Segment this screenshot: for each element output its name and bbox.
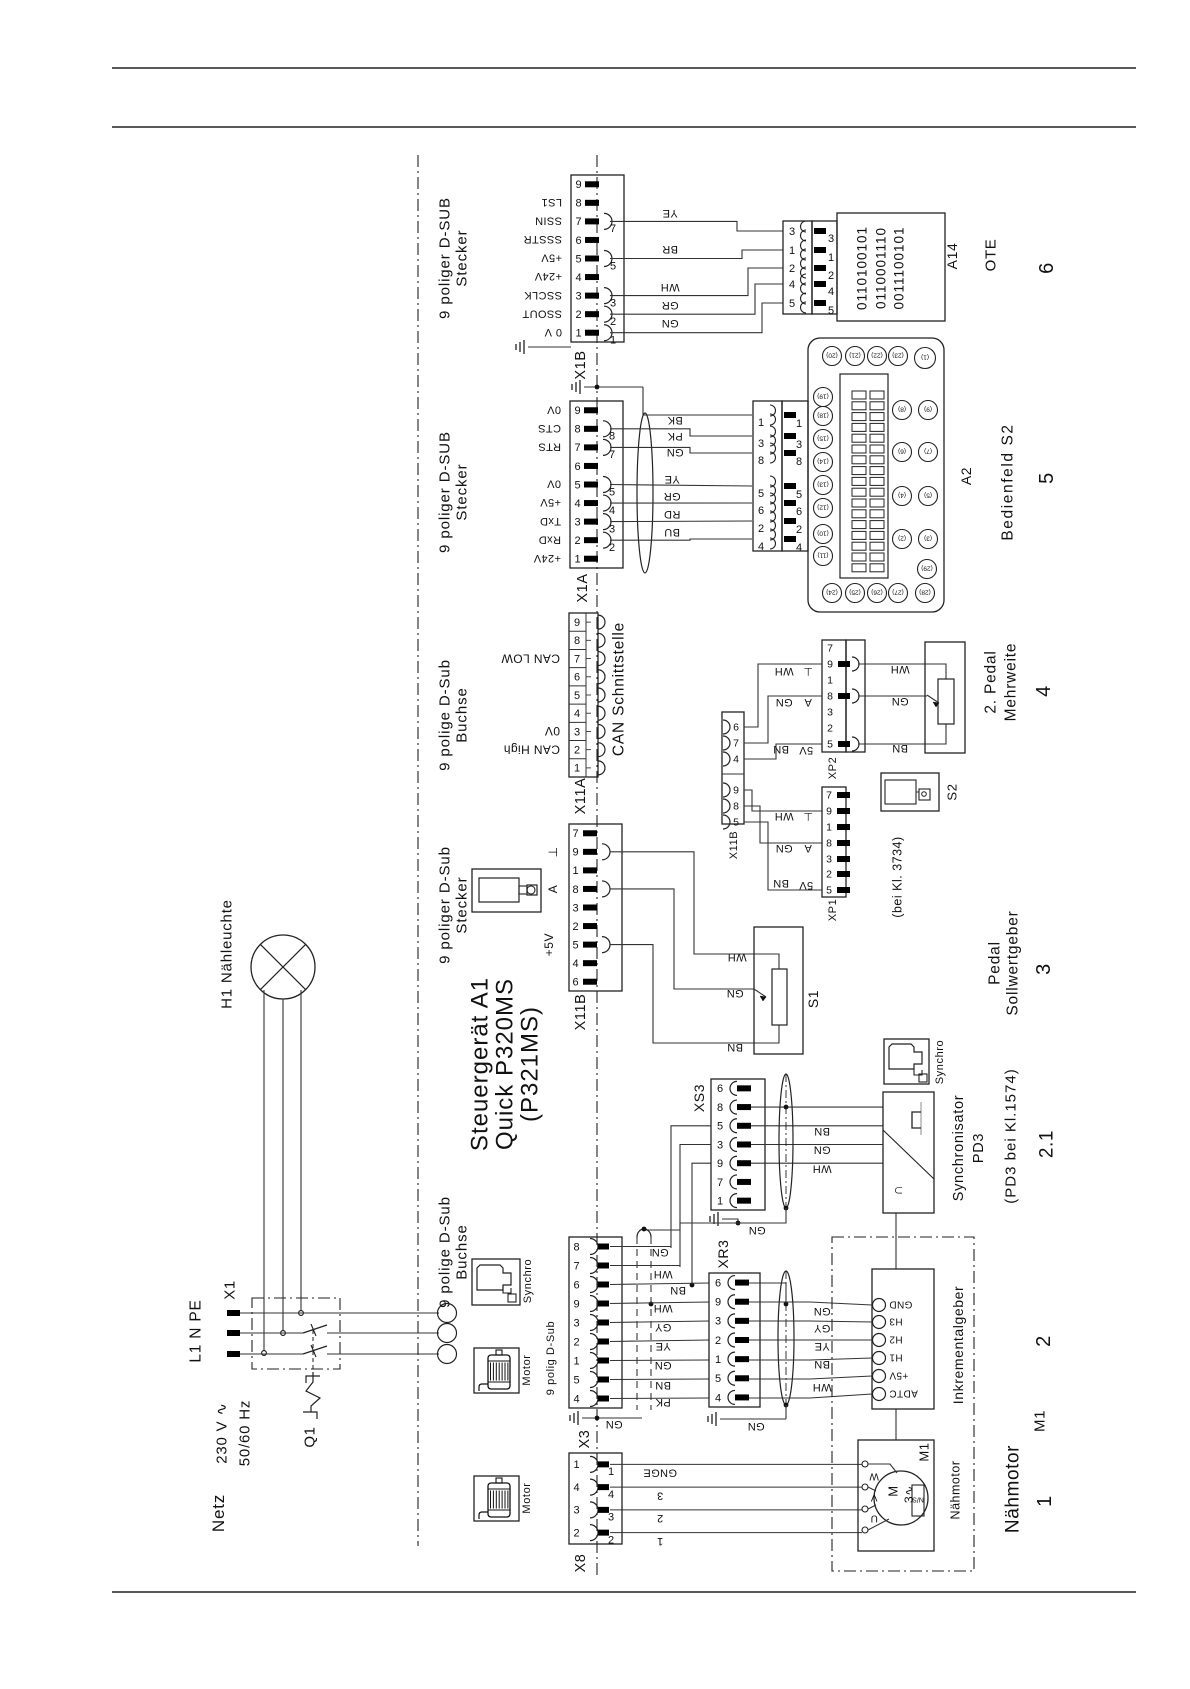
svg-text:8: 8 [572,884,578,896]
svg-text:1: 1 [796,418,802,430]
svg-text:5: 5 [827,739,833,751]
svg-text:3: 3 [827,707,833,719]
svg-text:9: 9 [574,405,580,417]
svg-text:6: 6 [574,461,580,473]
svg-text:2: 2 [573,1527,579,1539]
svg-text:4: 4 [796,542,802,554]
svg-text:7: 7 [572,828,578,840]
svg-text:4: 4 [573,1393,579,1405]
svg-text:6: 6 [1036,262,1058,274]
svg-text:3: 3 [715,1316,721,1328]
svg-text:4: 4 [828,286,834,298]
svg-text:5: 5 [609,486,615,498]
svg-text:TxD: TxD [540,515,561,527]
svg-text:+24V: +24V [534,270,562,282]
svg-text:1: 1 [1034,1495,1056,1507]
svg-text:(22): (22) [871,352,883,359]
svg-text:2: 2 [657,1512,664,1524]
svg-text:(14): (14) [817,458,829,465]
svg-text:Bedienfeld S2: Bedienfeld S2 [999,423,1016,540]
svg-text:(29): (29) [921,565,933,572]
svg-text:X3: X3 [577,1430,593,1449]
svg-text:9: 9 [575,179,581,191]
svg-text:M: M [886,1485,901,1496]
svg-text:7: 7 [610,223,616,235]
svg-text:Q1: Q1 [301,1426,318,1447]
svg-text:6: 6 [796,506,802,518]
svg-text:X11A: X11A [573,778,589,815]
svg-text:BN: BN [892,742,908,754]
svg-text:9: 9 [715,1297,721,1309]
svg-text:S1: S1 [805,990,821,1008]
svg-text:(19): (19) [817,393,829,400]
svg-text:(23): (23) [892,352,904,359]
svg-text:5: 5 [1036,472,1058,484]
svg-text:(3): (3) [924,535,932,542]
svg-text:YE: YE [664,473,679,485]
svg-text:8: 8 [796,456,802,468]
svg-text:GNGE: GNGE [643,1467,677,1479]
svg-text:WH: WH [812,1162,831,1174]
svg-text:(21): (21) [849,352,861,359]
svg-text:S2: S2 [945,783,960,800]
svg-text:GN: GN [775,696,792,708]
svg-text:1: 1 [657,1535,664,1547]
svg-text:YE: YE [655,1340,670,1352]
svg-text:(1): (1) [921,354,929,361]
svg-text:2.1: 2.1 [1037,1130,1058,1158]
svg-text:6: 6 [572,977,578,989]
svg-text:3: 3 [796,439,802,451]
svg-text:3: 3 [789,226,795,238]
svg-text:GN: GN [813,1144,830,1156]
svg-text:1: 1 [572,865,578,877]
svg-text:GN: GN [726,987,743,999]
svg-text:3: 3 [574,726,580,738]
svg-text:5: 5 [574,690,580,702]
svg-text:2: 2 [827,723,833,735]
svg-text:2: 2 [715,1335,721,1347]
svg-text:PD3: PD3 [971,1133,987,1163]
svg-text:OTE: OTE [982,239,999,272]
svg-text:RTS: RTS [538,441,561,453]
svg-text:XS3: XS3 [691,1084,707,1112]
svg-text:2: 2 [609,542,615,554]
svg-text:50/60 Hz: 50/60 Hz [236,1400,253,1466]
svg-text:WH: WH [660,281,679,293]
svg-text:CAN High: CAN High [503,742,560,756]
svg-text:3: 3 [657,1489,664,1501]
svg-text:230 V ∿: 230 V ∿ [213,1402,230,1464]
svg-text:3: 3 [573,1505,579,1517]
svg-text:8: 8 [574,635,580,647]
svg-text:Mehrweite: Mehrweite [1002,643,1019,722]
svg-text:0V: 0V [545,724,560,738]
svg-text:BN: BN [773,743,789,755]
svg-text:(18): (18) [817,412,829,419]
svg-text:Stecker: Stecker [453,876,470,933]
svg-text:2: 2 [610,316,616,328]
svg-text:Nähmotor: Nähmotor [948,1461,962,1520]
svg-text:8: 8 [758,455,764,467]
svg-text:Synchronisator: Synchronisator [951,1095,967,1202]
svg-text:A: A [804,696,812,708]
svg-text:3: 3 [572,902,578,914]
svg-text:0110001110: 0110001110 [874,227,889,309]
svg-text:A2: A2 [958,467,974,485]
svg-text:2: 2 [796,524,802,536]
svg-text:6: 6 [575,235,581,247]
svg-text:8: 8 [826,838,832,850]
svg-text:8: 8 [827,691,833,703]
svg-text:(8): (8) [898,406,906,413]
svg-text:ADTC: ADTC [889,1388,918,1399]
svg-text:(10): (10) [817,530,829,537]
svg-text:7: 7 [574,653,580,665]
svg-text:6: 6 [758,505,764,517]
svg-text:4: 4 [609,505,615,517]
svg-text:BN: BN [727,1041,743,1053]
svg-text:(P321MS): (P321MS) [516,1006,543,1122]
svg-text:GR: GR [661,299,678,311]
svg-text:5: 5 [796,489,802,501]
svg-text:7: 7 [574,442,580,454]
svg-text:X11B: X11B [728,831,740,860]
svg-text:5: 5 [826,885,832,897]
svg-text:1: 1 [610,335,616,347]
svg-text:5: 5 [574,479,580,491]
svg-text:YE: YE [814,1340,829,1352]
svg-text:BN: BN [655,1379,671,1391]
svg-text:1: 1 [827,675,833,687]
svg-text:2: 2 [1033,1335,1055,1347]
svg-text:5: 5 [572,939,578,951]
svg-text:1: 1 [789,245,795,257]
svg-text:GN: GN [813,1305,830,1317]
svg-text:1: 1 [573,1459,579,1471]
svg-text:2: 2 [828,270,834,282]
svg-text:7: 7 [717,1177,723,1189]
svg-text:CTS: CTS [538,422,561,434]
svg-text:GN: GN [666,446,683,458]
svg-text:7: 7 [573,1260,579,1272]
svg-text:3: 3 [826,854,832,866]
svg-text:GY: GY [654,1321,671,1333]
svg-text:(4): (4) [898,492,906,499]
svg-text:Stecker: Stecker [453,463,470,520]
svg-text:(7): (7) [924,448,932,455]
svg-text:4: 4 [733,754,739,766]
svg-text:Buchse: Buchse [453,687,470,742]
svg-text:2: 2 [574,745,580,757]
svg-text:YE: YE [662,207,677,219]
svg-text:9: 9 [826,806,832,818]
svg-text:Motor: Motor [521,1354,533,1385]
svg-text:5: 5 [828,305,834,317]
svg-text:W: W [869,1471,879,1482]
svg-text:WH: WH [653,1268,672,1280]
svg-text:2: 2 [789,263,795,275]
svg-text:+5V: +5V [889,1370,908,1381]
svg-text:1: 1 [573,1355,579,1367]
svg-text:9 poliger D-SUB: 9 poliger D-SUB [436,431,453,553]
svg-text:9: 9 [733,785,739,797]
svg-text:Inkrementalgeber: Inkrementalgeber [950,1286,966,1405]
svg-text:Buchse: Buchse [453,1224,470,1279]
svg-text:M1: M1 [1031,1410,1048,1432]
svg-text:9 polige D-Sub: 9 polige D-Sub [436,659,453,771]
svg-text:8: 8 [573,1241,579,1253]
svg-text:(6): (6) [898,448,906,455]
svg-text:GN: GN [775,842,792,854]
svg-text:(27): (27) [892,589,904,596]
svg-text:3: 3 [574,516,580,528]
svg-text:Netz: Netz [209,1494,228,1532]
svg-text:8: 8 [574,424,580,436]
svg-text:6: 6 [574,672,580,684]
svg-text:∩: ∩ [889,1185,905,1196]
svg-text:WH: WH [774,810,793,822]
svg-text:1: 1 [717,1195,723,1207]
svg-text:9: 9 [572,847,578,859]
svg-text:(13): (13) [817,481,829,488]
svg-text:⊥: ⊥ [803,665,813,677]
svg-text:WH: WH [727,951,746,963]
svg-text:WH: WH [774,665,793,677]
svg-text:(15): (15) [817,435,829,442]
svg-text:2: 2 [573,1336,579,1348]
svg-text:A14: A14 [944,243,960,270]
svg-text:9 polige D-Sub: 9 polige D-Sub [436,1196,453,1308]
svg-text:Quick P320MS: Quick P320MS [491,978,518,1150]
svg-text:SSCLK: SSCLK [524,289,562,301]
svg-text:1: 1 [608,1466,614,1478]
svg-text:XP1: XP1 [827,899,839,922]
svg-text:GY: GY [813,1322,830,1334]
svg-text:BK: BK [667,414,683,426]
svg-text:2: 2 [758,523,764,535]
svg-text:+24V: +24V [533,552,561,564]
svg-text:7: 7 [826,790,832,802]
svg-text:3: 3 [608,1512,614,1524]
svg-text:PK: PK [655,1396,671,1408]
svg-text:GR: GR [663,490,680,502]
svg-text:1: 1 [574,554,580,566]
svg-text:(20): (20) [826,352,838,359]
svg-text:6: 6 [715,1277,721,1289]
svg-text:(bei Kl. 3734): (bei Kl. 3734) [890,836,904,917]
svg-text:BN: BN [814,1125,830,1137]
svg-text:4: 4 [715,1392,721,1404]
svg-text:6: 6 [733,722,739,734]
svg-text:XR3: XR3 [715,1239,731,1268]
svg-text:(12): (12) [817,504,829,511]
svg-text:2: 2 [826,869,832,881]
svg-text:H2: H2 [889,1334,903,1345]
svg-text:+5V: +5V [541,252,562,264]
svg-text:9: 9 [717,1158,723,1170]
svg-text:XP2: XP2 [827,757,839,780]
svg-text:6: 6 [573,1279,579,1291]
svg-text:SSSTR: SSSTR [523,233,562,245]
svg-text:(24): (24) [826,589,838,596]
svg-text:BR: BR [662,243,678,255]
svg-text:3: 3 [828,233,834,245]
svg-text:9: 9 [573,1298,579,1310]
svg-text:CAN Schnittstelle: CAN Schnittstelle [610,622,627,756]
svg-text:5: 5 [575,253,581,265]
svg-text:WH: WH [812,1381,831,1393]
svg-text:5: 5 [715,1373,721,1385]
svg-text:H3: H3 [889,1316,903,1327]
svg-text:4: 4 [1033,685,1055,697]
svg-text:Pedal: Pedal [986,941,1003,985]
svg-text:A: A [546,885,560,894]
svg-text:GN: GN [661,317,678,329]
svg-text:Steuergerät A1: Steuergerät A1 [466,977,493,1151]
svg-text:RxD: RxD [538,533,561,545]
svg-text:2: 2 [572,921,578,933]
svg-text:BN: BN [814,1358,830,1370]
svg-text:PK: PK [667,430,683,442]
svg-text:3: 3 [609,523,615,535]
svg-text:9 poliger D-Sub: 9 poliger D-Sub [436,846,453,964]
svg-text:H1 Nähleuchte: H1 Nähleuchte [218,899,235,1009]
svg-text:X11B: X11B [573,994,589,1031]
svg-text:8: 8 [575,198,581,210]
svg-text:Stecker: Stecker [453,229,470,286]
svg-text:3: 3 [758,438,764,450]
svg-text:5: 5 [733,817,739,829]
svg-text:4: 4 [758,541,764,553]
svg-text:GN: GN [748,1224,765,1236]
svg-text:BN: BN [773,877,789,889]
svg-text:Synchro: Synchro [934,1040,946,1085]
svg-text:1: 1 [715,1354,721,1366]
svg-text:5: 5 [717,1121,723,1133]
svg-text:3: 3 [610,297,616,309]
svg-text:4: 4 [789,279,795,291]
svg-text:LS1: LS1 [541,196,562,208]
svg-text:4: 4 [608,1489,614,1501]
svg-text:2: 2 [574,535,580,547]
svg-text:8: 8 [609,431,615,443]
svg-text:L1 N PE: L1 N PE [187,1299,204,1362]
svg-text:(25): (25) [849,589,861,596]
svg-text:WH: WH [890,663,909,675]
svg-text:(28): (28) [919,589,931,596]
svg-text:0110100101: 0110100101 [855,226,870,310]
svg-text:5: 5 [610,260,616,272]
svg-text:4: 4 [575,272,581,284]
svg-text:GN: GN [747,1420,764,1432]
svg-text:(5): (5) [924,492,932,499]
svg-text:1: 1 [574,763,580,775]
svg-text:X1B: X1B [573,350,589,379]
svg-text:Motor: Motor [521,1482,533,1513]
svg-text:1: 1 [758,417,764,429]
svg-text:BU: BU [664,526,680,538]
svg-text:GN: GN [654,1359,671,1371]
svg-text:7: 7 [609,449,615,461]
svg-text:0V: 0V [546,403,561,415]
svg-text:SSOUT: SSOUT [522,307,562,319]
svg-text:Nähmotor: Nähmotor [1003,1445,1024,1533]
svg-text:(PD3 bei Kl.1574): (PD3 bei Kl.1574) [1002,1068,1019,1203]
svg-text:+5V: +5V [542,933,556,957]
svg-text:GN: GN [891,695,908,707]
svg-text:0V: 0V [546,478,561,490]
svg-text:Sollwertgeber: Sollwertgeber [1004,910,1021,1015]
svg-text:(26): (26) [871,589,883,596]
svg-text:5: 5 [758,488,764,500]
svg-text:+5V: +5V [540,496,561,508]
svg-text:2: 2 [575,309,581,321]
svg-text:BN: BN [670,1284,686,1296]
svg-text:1: 1 [828,252,834,264]
svg-text:CAN LOW: CAN LOW [501,651,560,665]
svg-text:1: 1 [575,328,581,340]
svg-text:X1A: X1A [575,573,591,602]
svg-text:3: 3 [1033,963,1055,975]
svg-text:9 poliger D-SUB: 9 poliger D-SUB [436,197,453,319]
svg-text:4: 4 [572,958,578,970]
svg-text:WH: WH [653,1302,672,1314]
svg-text:4: 4 [574,708,580,720]
svg-text:5: 5 [789,298,795,310]
svg-text:GN: GN [651,1246,668,1258]
svg-text:GN: GN [605,1418,622,1430]
svg-text:7: 7 [733,738,739,750]
svg-text:8: 8 [717,1102,723,1114]
svg-text:(11): (11) [817,552,828,559]
svg-text:⊥: ⊥ [803,810,813,822]
svg-text:X1: X1 [221,1280,238,1300]
svg-text:SSIN: SSIN [535,215,562,227]
svg-text:2. Pedal: 2. Pedal [982,650,999,713]
svg-text:9 polig D-Sub: 9 polig D-Sub [545,1321,557,1395]
svg-text:M1: M1 [917,1442,932,1461]
svg-text:2: 2 [608,1534,614,1546]
svg-text:9: 9 [827,659,833,671]
svg-text:0011100101: 0011100101 [892,226,907,309]
svg-text:4: 4 [573,1482,579,1494]
svg-text:U: U [870,1513,878,1524]
svg-text:0 V: 0 V [544,326,562,338]
svg-text:A: A [804,842,812,854]
svg-text:V: V [870,1492,877,1503]
svg-text:7: 7 [827,643,833,655]
svg-text:⊥: ⊥ [546,846,560,857]
svg-text:7: 7 [575,216,581,228]
svg-text:8: 8 [733,801,739,813]
svg-text:X8: X8 [573,1554,589,1573]
svg-text:4: 4 [574,498,580,510]
svg-text:H1: H1 [889,1352,903,1363]
svg-text:5: 5 [573,1374,579,1386]
svg-text:5V: 5V [799,879,814,891]
svg-text:3∿: 3∿ [902,1485,916,1503]
svg-text:6: 6 [717,1083,723,1095]
svg-text:RD: RD [664,508,681,520]
svg-text:Synchro: Synchro [522,1259,534,1304]
svg-text:3: 3 [573,1317,579,1329]
svg-text:1: 1 [826,822,832,834]
svg-text:3: 3 [575,290,581,302]
svg-text:5V: 5V [799,744,814,756]
svg-text:(9): (9) [924,406,932,413]
svg-text:GND: GND [889,1299,912,1310]
